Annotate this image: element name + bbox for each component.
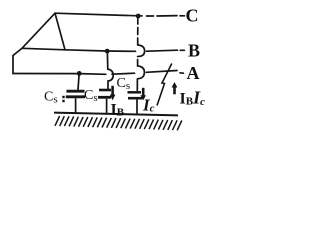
svg-text:A: A [187, 63, 200, 83]
wire from node B down to capacitor Cs2 with hop over A line [107, 53, 113, 89]
current arrow up (IB+Ic return) [172, 82, 178, 94]
wire C top ridge line [55, 13, 138, 16]
current arrow Ic down (at Cs3) [140, 88, 146, 100]
transistor body right ridge edge [55, 13, 65, 50]
capacitor Cs3 [128, 92, 143, 114]
current arrow IB down (at Cs2) [110, 86, 116, 100]
svg-text:B: B [188, 41, 200, 61]
wire dashed vertical from C node with hops over B and A [137, 19, 144, 91]
svg-text:C: C [186, 6, 199, 26]
node A junction dot [77, 71, 82, 76]
transistor body outline: top peak and left face [13, 13, 55, 73]
capacitor Cs2 [98, 90, 111, 113]
wire C line dashes to label [141, 15, 185, 17]
wire A line middle and right segments with dash [112, 71, 183, 75]
label Cs1 colon [62, 96, 64, 102]
ground hatching [55, 116, 182, 130]
lightning bolt current path [157, 64, 172, 106]
node B junction dot [105, 49, 110, 54]
ground line [54, 113, 178, 116]
wire B line right segment and dash [147, 50, 185, 51]
capacitor Cs1 [66, 91, 85, 113]
wire A line [13, 73, 106, 76]
wire from node A down to capacitor Cs1 [78, 76, 79, 90]
node C junction dot [136, 14, 141, 19]
wire B line [22, 48, 136, 51]
